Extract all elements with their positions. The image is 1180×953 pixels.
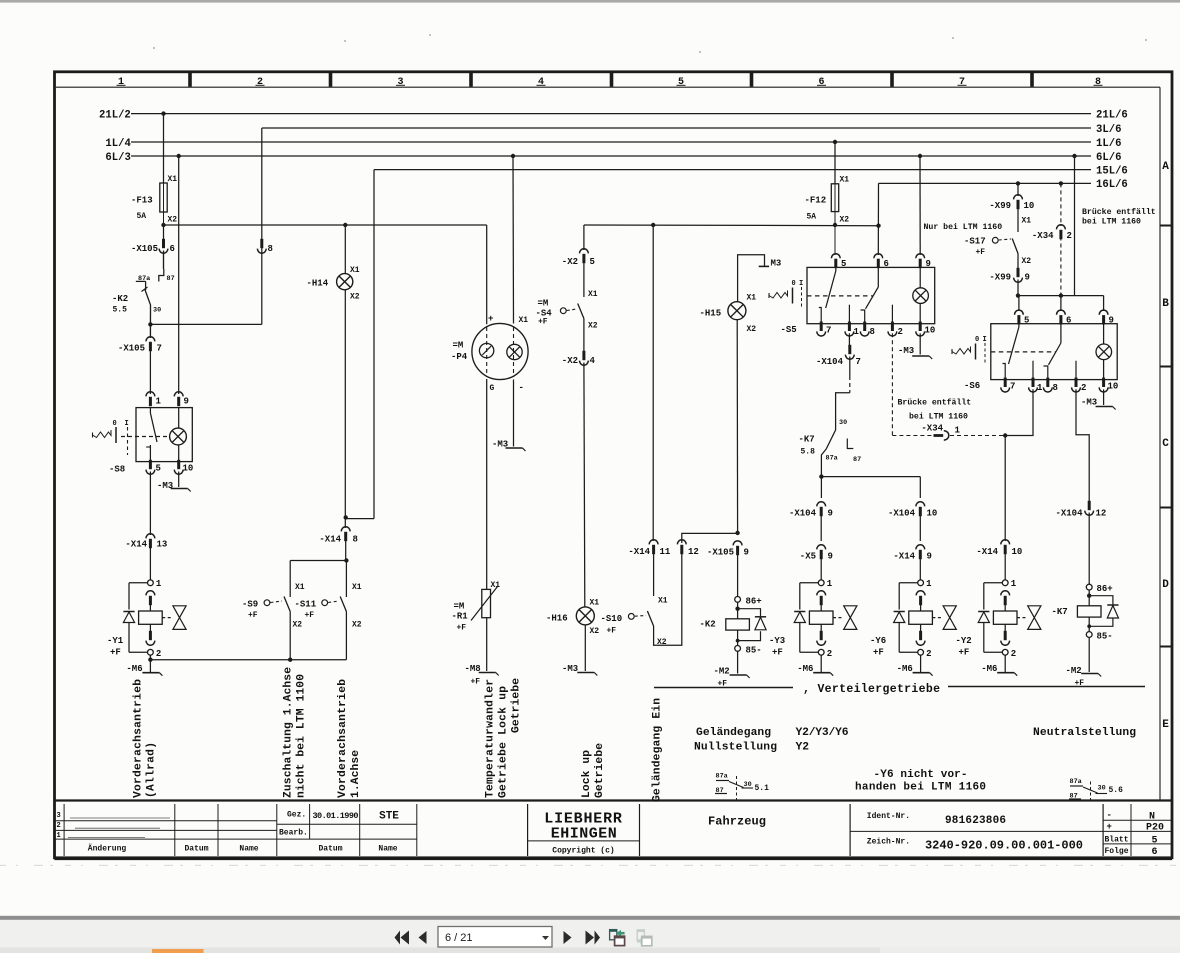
S5 internal lamp <box>919 267 921 288</box>
S6 stub 1 <box>1032 361 1034 380</box>
svg-text:2: 2 <box>926 649 931 659</box>
svg-text:11: 11 <box>660 547 671 557</box>
svg-text:X1: X1 <box>658 597 668 606</box>
svg-text:12: 12 <box>688 547 699 557</box>
svg-text:7: 7 <box>856 357 861 367</box>
svg-text:-X14: -X14 <box>893 552 915 562</box>
S8 actuator hand + 0I <box>92 433 94 438</box>
svg-text:X1: X1 <box>840 176 850 185</box>
svg-text:X1: X1 <box>747 294 757 303</box>
inner right border <box>1159 87 1161 800</box>
wire X14:12 up to H15 node <box>682 533 738 543</box>
svg-text:-Y6: -Y6 <box>870 636 886 646</box>
svg-text:-: - <box>1107 811 1112 821</box>
svg-text:Fahrzeug: Fahrzeug <box>708 815 766 829</box>
wire feed to gauge/R1 <box>486 225 488 324</box>
svg-text:-S8: -S8 <box>109 465 125 475</box>
svg-text:Blatt: Blatt <box>1105 836 1129 845</box>
svg-text:Nur bei LTM 1160: Nur bei LTM 1160 <box>924 222 1003 232</box>
solenoid valve -Y3 <box>818 580 824 586</box>
svg-text:4: 4 <box>538 77 544 88</box>
svg-text:handen bei LTM 1160: handen bei LTM 1160 <box>855 782 986 794</box>
svg-text:3: 3 <box>57 812 61 820</box>
svg-text:6: 6 <box>1151 847 1157 858</box>
svg-text:-R1: -R1 <box>452 612 469 622</box>
svg-text:7: 7 <box>959 77 965 88</box>
svg-text:1: 1 <box>156 397 162 407</box>
connector X104:12 <box>1088 501 1091 510</box>
svg-text:1: 1 <box>1011 579 1017 589</box>
switch S11 branch <box>345 561 347 598</box>
svg-text:5: 5 <box>590 257 595 267</box>
svg-text:10: 10 <box>1024 201 1035 211</box>
S6 bottom pins <box>1004 378 1007 387</box>
svg-text:-X2: -X2 <box>562 257 578 267</box>
svg-text:X1: X1 <box>350 266 360 275</box>
svg-text:2: 2 <box>257 77 263 88</box>
svg-text:+F: +F <box>538 318 548 327</box>
relay contact K7 30/87a/87 <box>849 357 851 377</box>
svg-text:Datum: Datum <box>184 845 208 854</box>
svg-text:X2: X2 <box>293 621 303 630</box>
svg-text:-Y3: -Y3 <box>769 636 785 646</box>
svg-text:+F: +F <box>248 611 258 620</box>
svg-text:1: 1 <box>156 579 162 589</box>
svg-text:8: 8 <box>353 535 358 545</box>
svg-text:5.5: 5.5 <box>113 306 128 315</box>
svg-text:85-: 85- <box>746 646 762 656</box>
svg-text:-S6: -S6 <box>964 381 980 391</box>
svg-text:Brücke entfällt: Brücke entfällt <box>1082 207 1156 217</box>
svg-text:Getriebe: Getriebe <box>594 743 606 798</box>
svg-text:Name: Name <box>239 845 258 854</box>
svg-text:1: 1 <box>827 579 833 589</box>
svg-text:5.8: 5.8 <box>801 448 816 457</box>
title block bottom heavy rule <box>55 858 1173 860</box>
svg-text:+F: +F <box>772 648 783 658</box>
diode branch K7 <box>1089 596 1113 605</box>
wire to X14:11 <box>652 225 654 541</box>
svg-text:-P4: -P4 <box>451 352 468 362</box>
diode branch K2 <box>738 609 761 617</box>
switch unit S6 <box>1015 310 1024 315</box>
svg-text:1: 1 <box>1037 383 1043 393</box>
svg-text:4: 4 <box>590 356 596 366</box>
svg-text:10: 10 <box>927 509 938 519</box>
svg-text:16L/6: 16L/6 <box>1096 179 1128 191</box>
svg-text:-H15: -H15 <box>700 309 722 319</box>
svg-text:Neutralstellung: Neutralstellung <box>1033 727 1136 739</box>
svg-text:8: 8 <box>268 244 273 254</box>
svg-text:1: 1 <box>854 327 860 337</box>
ground M2 at K7 <box>1088 637 1090 672</box>
svg-text:21L/6: 21L/6 <box>1096 109 1128 121</box>
svg-text:3240-920.09.00.001-000: 3240-920.09.00.001-000 <box>925 839 1083 853</box>
connector X105:6 <box>163 225 165 240</box>
svg-text:5: 5 <box>678 77 684 88</box>
sheet outer border frame <box>55 72 1173 858</box>
svg-text:-M3: -M3 <box>898 346 914 356</box>
bottom drawing frame rule <box>55 799 1172 801</box>
bus line 3L/6 <box>262 127 1091 129</box>
S10 switch blade <box>647 611 653 626</box>
S6 actuator hand + 0I <box>951 349 953 354</box>
svg-text:6 / 21: 6 / 21 <box>445 932 473 944</box>
svg-text:2: 2 <box>827 649 832 659</box>
feed wire y225 left segment <box>164 224 487 226</box>
solenoid valve -Y2 <box>1002 580 1008 586</box>
svg-text:8: 8 <box>1095 77 1101 88</box>
connector X14:11 <box>649 540 658 545</box>
svg-text:1: 1 <box>118 77 124 88</box>
svg-text:-Y1: -Y1 <box>107 636 124 646</box>
svg-text:7: 7 <box>157 344 162 354</box>
wire F13 to node <box>163 183 165 225</box>
node 16L/6 drop <box>876 224 880 228</box>
svg-text:85-: 85- <box>1097 632 1113 642</box>
wire H14 to X14:8 <box>344 290 346 528</box>
connector X14:9 <box>916 545 925 550</box>
taskbar orange segment <box>152 949 204 953</box>
S8 internal switch blade <box>149 408 151 413</box>
solenoid valve -Y6 <box>918 580 924 586</box>
svg-text:-M6: -M6 <box>897 664 913 674</box>
connector X104:10 <box>916 502 925 507</box>
svg-text:3L/6: 3L/6 <box>1096 124 1121 136</box>
svg-text:1: 1 <box>926 579 932 589</box>
relay contact K2 87/87a <box>159 269 164 282</box>
S5 actuator hand + 0I <box>768 293 770 298</box>
svg-text:Vorderachsantrieb: Vorderachsantrieb <box>337 679 349 798</box>
svg-text:-S5: -S5 <box>781 325 797 335</box>
svg-text:-K2: -K2 <box>700 620 716 630</box>
svg-text:-M2: -M2 <box>714 667 730 677</box>
svg-text:X1: X1 <box>1022 217 1032 226</box>
feed wire y225 right segment <box>584 224 879 227</box>
ground M3 step above H15 <box>738 255 765 302</box>
svg-text:Zeich-Nr.: Zeich-Nr. <box>867 838 910 847</box>
svg-text:-X5: -X5 <box>800 552 816 562</box>
node 15L/6 join <box>344 515 348 519</box>
svg-text:Nullstellung: Nullstellung <box>694 742 777 754</box>
svg-text:Copyright (c): Copyright (c) <box>552 847 614 856</box>
wire S6 pin2 to X104:12 <box>1076 389 1089 502</box>
svg-text:-M3: -M3 <box>1081 398 1097 408</box>
svg-text:Brücke entfällt: Brücke entfällt <box>898 398 972 408</box>
wire 15L/6 drop <box>373 170 375 519</box>
svg-text:-X99: -X99 <box>989 273 1011 283</box>
svg-text:-X104: -X104 <box>1055 509 1083 519</box>
svg-text:2: 2 <box>1011 649 1016 659</box>
svg-text:9: 9 <box>927 552 932 562</box>
wire H15 to node <box>736 320 738 534</box>
svg-text:15L/6: 15L/6 <box>1096 165 1128 177</box>
svg-text:-K2: -K2 <box>112 294 128 304</box>
S6 internal lamp <box>1103 324 1105 344</box>
svg-text:A: A <box>1162 161 1169 173</box>
dashed jumper S5 pin2 to X34:1 <box>891 333 893 435</box>
wire S8 to X14:13 <box>149 472 151 536</box>
svg-text:X1: X1 <box>168 175 178 184</box>
svg-text:9: 9 <box>828 552 833 562</box>
svg-text:-X105: -X105 <box>707 548 734 558</box>
svg-text:9: 9 <box>1025 273 1030 283</box>
svg-text:5.6: 5.6 <box>1109 786 1124 795</box>
svg-text:=M: =M <box>453 341 464 351</box>
svg-text:5A: 5A <box>807 213 817 222</box>
node F13-X2 feed <box>161 223 165 227</box>
svg-text:5A: 5A <box>137 212 147 221</box>
ground M3 at gauge <box>513 380 515 447</box>
svg-text:-F12: -F12 <box>805 196 827 206</box>
S6 blade 6-8 <box>1060 324 1062 343</box>
svg-text:2: 2 <box>156 649 161 659</box>
switch S17 <box>1012 239 1018 254</box>
wire S10 to X14:12 <box>654 552 682 645</box>
connector X14:12 <box>677 540 686 545</box>
svg-text:(Allrad): (Allrad) <box>146 742 158 798</box>
svg-text:-X14: -X14 <box>125 540 147 550</box>
svg-text:30.01.1990: 30.01.1990 <box>313 811 359 821</box>
ground M3 at H16 <box>584 625 586 671</box>
svg-text:Bearb.: Bearb. <box>279 829 308 838</box>
svg-text:-Y2: -Y2 <box>956 636 972 646</box>
wire corner to X2:5 <box>583 225 585 250</box>
svg-text:7: 7 <box>1010 382 1015 392</box>
node X14:11 feed <box>651 223 655 227</box>
svg-text:Datum: Datum <box>318 845 342 854</box>
svg-text:-X99: -X99 <box>989 201 1011 211</box>
svg-text:M3: M3 <box>771 259 782 269</box>
svg-text:X1: X1 <box>588 290 598 299</box>
svg-text:X2: X2 <box>588 322 598 331</box>
svg-text:Lock up: Lock up <box>581 750 593 798</box>
svg-text:P20: P20 <box>1146 823 1164 834</box>
connector X5:9 <box>817 545 826 550</box>
svg-text:-X14: -X14 <box>976 547 998 557</box>
wire 6L/6 drop to S6 <box>1072 154 1076 158</box>
svg-text:-S11: -S11 <box>295 600 317 610</box>
revision row rules <box>70 817 170 819</box>
connector X14:10 <box>1001 540 1010 545</box>
svg-text:-M6: -M6 <box>981 664 997 674</box>
node K2 to 3L/6 branch <box>148 322 152 326</box>
node H15/X14:12 join <box>735 531 739 535</box>
svg-text:86+: 86+ <box>746 597 762 607</box>
S6 feed rail <box>1018 295 1104 297</box>
svg-text:+F: +F <box>873 648 884 658</box>
svg-text:1: 1 <box>57 832 61 840</box>
switch S9 branch <box>289 561 291 598</box>
svg-text:87a: 87a <box>138 275 150 283</box>
svg-text:X2: X2 <box>1022 257 1032 266</box>
scan specks <box>153 47 155 49</box>
icon previous view <box>610 930 617 940</box>
node 21L/2 tap <box>161 111 165 115</box>
connector X104:9 <box>817 502 826 507</box>
svg-text:Y2: Y2 <box>796 742 810 754</box>
svg-text:I: I <box>983 336 987 344</box>
divider Verteilergetriebe <box>654 687 793 689</box>
svg-text:1L/6: 1L/6 <box>1096 138 1121 150</box>
ground M6 at Y1 <box>149 655 151 672</box>
connector 8 column2 <box>260 239 263 248</box>
scan artifact line below sheet <box>0 864 1180 866</box>
svg-text:8: 8 <box>1053 383 1058 393</box>
ground M2 at K2 <box>737 651 739 673</box>
svg-text:-: - <box>519 383 524 393</box>
svg-text:7: 7 <box>826 326 831 336</box>
lamp H15 <box>728 302 746 320</box>
wire S5 pin1 to X104:7 <box>848 333 850 346</box>
bus line 21L/2-21L/6 <box>131 113 1091 115</box>
svg-text:X1: X1 <box>352 583 362 592</box>
wire X105:6 to K2 contact 87 <box>163 251 165 270</box>
title block grid <box>55 820 277 822</box>
lamp H14 <box>343 223 347 227</box>
svg-text:87: 87 <box>167 275 175 283</box>
svg-text:C: C <box>1162 438 1169 450</box>
svg-text:N: N <box>1149 812 1155 823</box>
svg-text:5.1: 5.1 <box>755 784 770 793</box>
svg-text:+: + <box>488 314 493 324</box>
S5 stub 1 <box>848 305 850 324</box>
svg-text:30: 30 <box>839 419 847 427</box>
svg-text:87: 87 <box>853 456 861 464</box>
svg-text:EHINGEN: EHINGEN <box>551 826 618 843</box>
switch unit S5 <box>831 254 840 259</box>
svg-text:9: 9 <box>744 548 749 558</box>
svg-text:Vorderachsantrieb: Vorderachsantrieb <box>133 679 145 798</box>
wire 3L/6 drop column2 <box>261 128 263 324</box>
svg-text:+F: +F <box>457 624 467 633</box>
wire 21L/2 to F13 <box>163 114 165 183</box>
svg-text:+: + <box>1107 822 1112 832</box>
svg-text:2: 2 <box>898 327 903 337</box>
svg-text:X1: X1 <box>519 316 529 325</box>
connector X34:1 <box>934 434 944 437</box>
wire S6 pin1 to X14:10 <box>1005 389 1033 435</box>
connector X34:2 dashed drop <box>1059 181 1063 185</box>
solenoid valve -Y1 <box>148 580 154 586</box>
svg-text:=M: =M <box>454 602 465 612</box>
svg-text:bei LTM 1160: bei LTM 1160 <box>1082 217 1141 227</box>
svg-text:X2: X2 <box>350 293 360 302</box>
bus line 16L/6 <box>879 182 1092 184</box>
page dropdown <box>438 927 552 948</box>
gauge P4 <box>472 323 528 379</box>
svg-text:X2: X2 <box>352 621 362 630</box>
svg-text:12: 12 <box>1096 509 1107 519</box>
svg-text:9: 9 <box>828 509 833 519</box>
S5 blade 6-8 <box>877 267 879 287</box>
svg-text:-M3: -M3 <box>562 664 578 674</box>
svg-text:10: 10 <box>183 464 194 474</box>
svg-text:10: 10 <box>925 326 936 336</box>
lamp H16 <box>576 607 594 625</box>
svg-text:-F13: -F13 <box>131 196 153 206</box>
column tick marks header <box>188 73 192 87</box>
svg-text:+F: +F <box>959 648 970 658</box>
svg-text:87a: 87a <box>1070 778 1082 786</box>
S6 stub 2 <box>1075 361 1077 380</box>
nav next button <box>564 931 572 944</box>
svg-text:Temperaturwandler: Temperaturwandler <box>485 679 497 798</box>
fuse F12 <box>833 140 837 144</box>
svg-text:bei LTM 1160: bei LTM 1160 <box>909 412 968 422</box>
svg-text:-M3: -M3 <box>492 440 508 450</box>
connector X2:4 <box>582 351 585 360</box>
svg-text:Geländegang: Geländegang <box>696 727 771 739</box>
S5 bottom pins <box>820 322 823 331</box>
svg-text:I: I <box>799 280 803 288</box>
svg-text:6: 6 <box>170 244 175 254</box>
svg-text:30: 30 <box>153 307 161 315</box>
svg-text:-H16: -H16 <box>546 614 568 624</box>
svg-text:-M2: -M2 <box>1066 666 1082 676</box>
wire K7 contact to X104:9/10 <box>821 449 826 477</box>
svg-text:-S9: -S9 <box>242 600 258 610</box>
svg-text:-M3: -M3 <box>157 481 173 491</box>
row boundary ticks right <box>1160 225 1171 227</box>
wire 6L/6 to S5 lamp <box>918 154 922 158</box>
S5 blade 5-7 <box>835 267 837 271</box>
svg-text:-X104: -X104 <box>789 509 817 519</box>
svg-text:1: 1 <box>955 426 961 436</box>
ground M8 at R1 <box>486 618 488 671</box>
svg-text:0: 0 <box>792 280 796 288</box>
svg-text:5: 5 <box>1151 836 1157 847</box>
svg-text:Folge: Folge <box>1105 847 1129 856</box>
connector X105:9 <box>733 541 742 546</box>
S8 bottom pins 5/10 <box>149 460 152 469</box>
svg-text:+F: +F <box>110 648 121 658</box>
svg-text:Name: Name <box>378 845 397 854</box>
svg-text:5: 5 <box>156 464 161 474</box>
svg-text:0: 0 <box>113 420 117 428</box>
svg-text:+F: +F <box>471 678 481 687</box>
nav first-page button <box>395 931 410 945</box>
svg-text:, Verteilergetriebe: , Verteilergetriebe <box>803 683 940 696</box>
svg-text:2: 2 <box>1067 231 1072 241</box>
svg-text:6L/3: 6L/3 <box>105 152 130 164</box>
svg-text:Geländegang Ein: Geländegang Ein <box>652 698 664 802</box>
svg-text:-S10: -S10 <box>601 614 623 624</box>
svg-text:1.Achse: 1.Achse <box>350 750 362 798</box>
S8 internal lamp <box>170 428 187 445</box>
svg-text:2: 2 <box>57 822 61 830</box>
svg-text:Gez.: Gez. <box>287 811 306 820</box>
S6 blade 5-7 <box>1018 324 1020 327</box>
ground M3 at S8 <box>178 472 180 488</box>
node X99 to S6 rail <box>1016 293 1020 297</box>
svg-text:-Y6 nicht vor-: -Y6 nicht vor- <box>874 769 968 781</box>
wire 6L/3 to gauge lamp <box>511 154 515 158</box>
svg-text:0: 0 <box>975 336 979 344</box>
svg-text:1L/4: 1L/4 <box>105 138 131 150</box>
svg-text:10: 10 <box>1108 382 1119 392</box>
svg-text:87a: 87a <box>716 773 728 781</box>
svg-text:9: 9 <box>184 397 189 407</box>
connector X105:7 <box>146 337 155 342</box>
bus line 1L/4-1L/6 <box>131 141 1091 143</box>
svg-text:Getriebe: Getriebe <box>511 678 523 733</box>
svg-text:86+: 86+ <box>1097 584 1113 594</box>
node 6L/3 tap S8 lamp <box>177 154 181 158</box>
node 16L/6 X99 tap <box>1016 181 1020 185</box>
svg-text:Y2/Y3/Y6: Y2/Y3/Y6 <box>796 727 849 739</box>
svg-text:=M: =M <box>538 299 549 309</box>
